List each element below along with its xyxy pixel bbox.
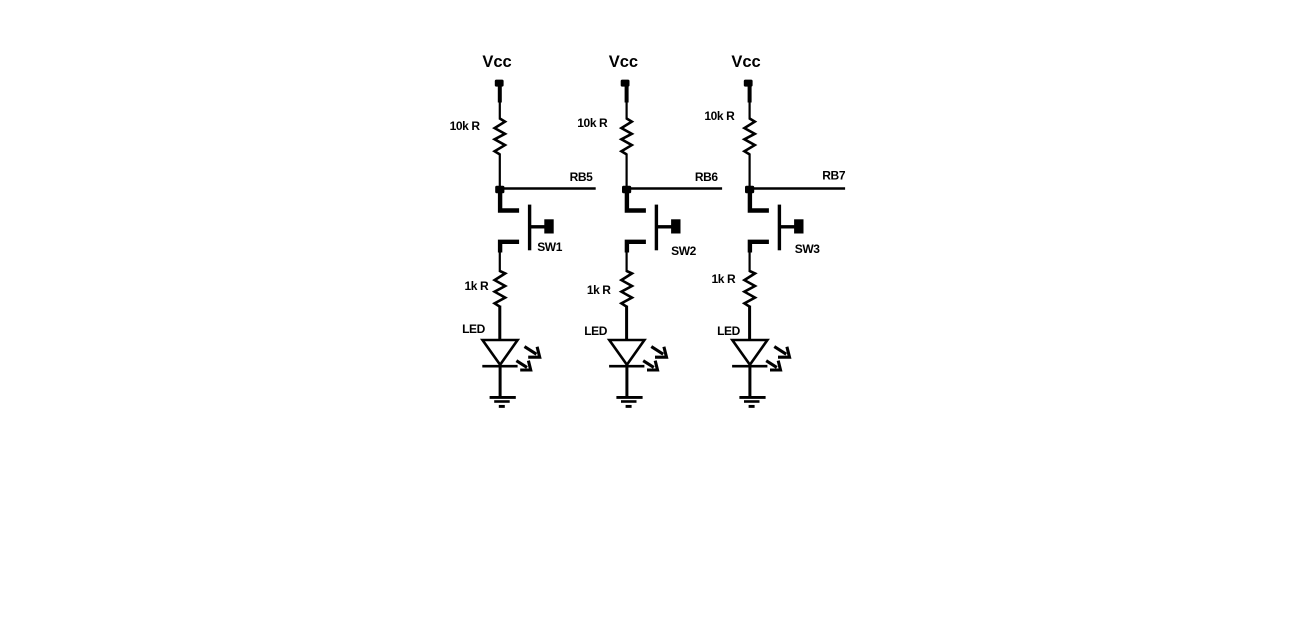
net label RB6 [695, 170, 719, 184]
wire Vcc stub [498, 83, 502, 120]
svg-text:10k R: 10k R [704, 109, 735, 123]
value label 1k R [465, 279, 489, 293]
power net Vcc label (column 1) [482, 53, 511, 71]
LED light emission arrows [516, 347, 539, 370]
svg-text:10k R: 10k R [577, 116, 608, 130]
value label 10k R [450, 119, 481, 133]
svg-text:LED: LED [584, 324, 608, 338]
value label 1k R [587, 283, 611, 297]
ground symbol (column 2) [616, 397, 642, 406]
node RB5 junction dot [495, 186, 504, 193]
wire net RB7 [750, 187, 846, 190]
resistor 10k (column 2) [621, 119, 631, 155]
ground symbol (column 3) [739, 397, 765, 406]
wire resistor to node RB6 [625, 154, 627, 188]
wire net RB6 [627, 187, 723, 190]
svg-text:RB5: RB5 [570, 170, 594, 184]
svg-text:Vcc: Vcc [482, 53, 511, 71]
LED diode triangle (column 3) [732, 340, 767, 366]
net label RB7 [822, 169, 846, 183]
reference label SW1 [537, 240, 563, 254]
svg-text:1k R: 1k R [712, 272, 736, 286]
wire resistor to LED anode [625, 306, 628, 340]
wire Vcc stub [625, 83, 629, 120]
reference label SW2 [671, 244, 697, 258]
svg-text:RB7: RB7 [822, 169, 846, 183]
wire LED cathode to ground [499, 365, 502, 397]
svg-text:SW2: SW2 [671, 244, 697, 258]
Vcc terminal dot (column 1) [495, 80, 504, 87]
switch SW3 pushbutton [750, 193, 804, 253]
svg-text:1k R: 1k R [465, 279, 489, 293]
wire net RB5 [500, 187, 596, 190]
svg-text:LED: LED [462, 322, 486, 336]
node RB7 junction dot [745, 186, 754, 193]
resistor 10k (column 3) [744, 119, 754, 155]
label LED [584, 324, 608, 338]
switch SW1 pushbutton [500, 193, 554, 253]
resistor 1k (column 1) [495, 271, 506, 307]
power net Vcc label (column 2) [609, 53, 638, 71]
value label 10k R [704, 109, 735, 123]
LED light emission arrows [643, 347, 666, 370]
wire resistor to node RB7 [748, 154, 750, 188]
ground symbol (column 1) [490, 397, 516, 406]
wire switch to resistor 1k [625, 251, 627, 272]
wire switch to resistor 1k [499, 251, 501, 272]
resistor 1k (column 3) [744, 271, 755, 307]
net label RB5 [570, 170, 594, 184]
wire Vcc stub [748, 83, 752, 120]
power net Vcc label (column 3) [731, 53, 760, 71]
svg-text:SW1: SW1 [537, 240, 563, 254]
value label 1k R [712, 272, 736, 286]
LED diode triangle (column 1) [482, 340, 517, 366]
Vcc terminal dot (column 2) [621, 80, 630, 87]
svg-text:SW3: SW3 [795, 242, 821, 256]
value label 10k R [577, 116, 608, 130]
wire LED cathode to ground [625, 365, 628, 397]
svg-text:Vcc: Vcc [609, 53, 638, 71]
label LED [717, 324, 741, 338]
Vcc terminal dot (column 3) [744, 80, 753, 87]
switch SW2 pushbutton [627, 193, 681, 253]
reference label SW3 [795, 242, 821, 256]
wire resistor to LED anode [498, 306, 501, 340]
label LED [462, 322, 486, 336]
wire switch to resistor 1k [748, 251, 750, 272]
wire resistor to node RB5 [499, 154, 501, 188]
node RB6 junction dot [622, 186, 631, 193]
svg-text:RB6: RB6 [695, 170, 719, 184]
LED diode triangle (column 2) [609, 340, 644, 366]
svg-text:10k R: 10k R [450, 119, 481, 133]
svg-text:1k R: 1k R [587, 283, 611, 297]
wire LED cathode to ground [748, 365, 751, 397]
svg-text:Vcc: Vcc [731, 53, 760, 71]
resistor 10k (column 1) [495, 119, 505, 155]
svg-text:LED: LED [717, 324, 741, 338]
wire resistor to LED anode [748, 306, 751, 340]
LED light emission arrows [766, 347, 789, 370]
resistor 1k (column 2) [621, 271, 632, 307]
